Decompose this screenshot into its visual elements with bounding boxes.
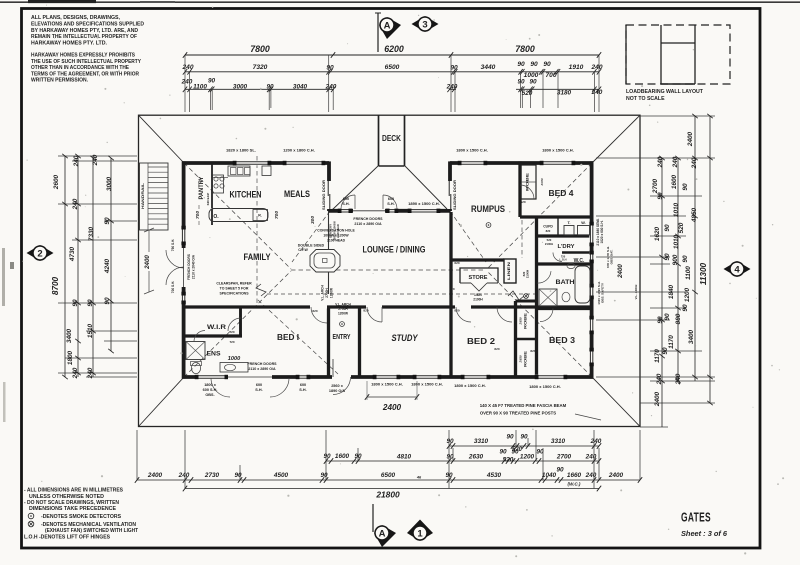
- svg-text:S.H.: S.H.: [387, 202, 394, 206]
- svg-text:90: 90: [682, 183, 689, 191]
- svg-text:90: 90: [664, 224, 671, 232]
- svg-text:620: 620: [454, 261, 459, 265]
- svg-text:REMAIN THE INTELLECTUAL PROPER: REMAIN THE INTELLECTUAL PROPERTY OF: [31, 34, 138, 40]
- svg-text:90: 90: [266, 83, 274, 90]
- svg-text:90: 90: [499, 449, 507, 456]
- svg-text:11300: 11300: [699, 262, 708, 285]
- svg-text:8700: 8700: [51, 276, 60, 295]
- svg-text:240: 240: [73, 155, 80, 167]
- svg-text:O.: O.: [213, 214, 219, 220]
- svg-text:240: 240: [325, 83, 337, 90]
- svg-text:LOADBEARING WALL LAYOUT: LOADBEARING WALL LAYOUT: [626, 89, 704, 95]
- svg-text:2630: 2630: [468, 454, 484, 461]
- svg-text:7800: 7800: [515, 44, 535, 54]
- svg-text:FRENCH DOORS: FRENCH DOORS: [187, 254, 191, 280]
- svg-text:1820 x 1800 SL.: 1820 x 1800 SL.: [226, 148, 256, 153]
- svg-text:240: 240: [92, 154, 99, 166]
- svg-text:240: 240: [585, 454, 597, 461]
- svg-text:W.I.R: W.I.R: [207, 324, 226, 331]
- svg-text:1800 x 1500 C.H.: 1800 x 1500 C.H.: [411, 382, 443, 387]
- svg-text:3000: 3000: [233, 83, 248, 90]
- svg-text:1600: 1600: [671, 174, 678, 189]
- svg-text:700: 700: [545, 72, 556, 79]
- svg-text:K20 E.F.P: K20 E.F.P: [206, 193, 210, 206]
- svg-text:720: 720: [229, 340, 234, 344]
- svg-text:2/630: 2/630: [519, 317, 523, 325]
- svg-text:1890 x 1500 C.H.: 1890 x 1500 C.H.: [408, 201, 440, 206]
- svg-text:TO SHEET 5 FOR: TO SHEET 5 FOR: [220, 287, 249, 291]
- svg-text:(W.C.): (W.C.): [568, 482, 581, 487]
- svg-text:2400: 2400: [147, 472, 163, 479]
- svg-text:3400: 3400: [66, 328, 73, 343]
- svg-text:C.F.W: C.F.W: [298, 248, 308, 252]
- svg-text:TERMS OF THE AGREEMENT, OR WIT: TERMS OF THE AGREEMENT, OR WITH PRIOR: [31, 71, 139, 77]
- svg-text:90: 90: [450, 65, 458, 72]
- svg-text:820: 820: [454, 309, 459, 313]
- svg-text:90: 90: [517, 79, 525, 86]
- svg-text:2110 x 2890 O/A: 2110 x 2890 O/A: [354, 222, 382, 226]
- svg-text:2400: 2400: [144, 255, 151, 270]
- svg-text:-DENOTES SMOKE DETECTORS: -DENOTES SMOKE DETECTORS: [41, 514, 121, 520]
- svg-text:240: 240: [585, 472, 597, 479]
- svg-text:240: 240: [675, 373, 682, 385]
- svg-text:BED I: BED I: [277, 332, 299, 342]
- svg-text:7320: 7320: [253, 64, 268, 71]
- svg-text:1800 x: 1800 x: [204, 383, 217, 387]
- svg-text:HARKAWAY HOMES EXPRESSLY PROHI: HARKAWAY HOMES EXPRESSLY PROHIBITS: [31, 53, 135, 59]
- svg-text:1800 x 1500 C.H.: 1800 x 1500 C.H.: [456, 148, 488, 153]
- svg-text:46: 46: [416, 476, 422, 480]
- svg-text:620: 620: [449, 287, 454, 291]
- svg-text:SLIDING DOOR: SLIDING DOOR: [453, 179, 457, 210]
- svg-text:720: 720: [229, 330, 234, 334]
- svg-text:90: 90: [320, 472, 328, 479]
- svg-text:2400: 2400: [654, 391, 661, 407]
- svg-text:90: 90: [657, 192, 664, 200]
- svg-text:240: 240: [591, 89, 603, 96]
- svg-text:2600: 2600: [53, 174, 60, 190]
- svg-text:2700H: 2700H: [325, 288, 329, 298]
- svg-text:2100H: 2100H: [545, 242, 553, 246]
- svg-text:2560 x: 2560 x: [331, 384, 344, 388]
- svg-text:L.O.H: L.O.H: [560, 258, 567, 262]
- svg-text:4810: 4810: [396, 454, 412, 461]
- svg-text:90: 90: [234, 472, 242, 479]
- svg-text:1800 x 1500 C.H.: 1800 x 1500 C.H.: [529, 384, 561, 389]
- svg-text:90: 90: [104, 297, 111, 305]
- svg-text:1020 x 600 S.H.: 1020 x 600 S.H.: [600, 220, 604, 243]
- svg-text:90: 90: [664, 313, 671, 321]
- svg-text:2110 x 2890 O/A: 2110 x 2890 O/A: [248, 367, 276, 371]
- svg-text:1040: 1040: [542, 472, 557, 479]
- svg-text:90: 90: [511, 449, 519, 456]
- svg-text:1800: 1800: [67, 350, 74, 365]
- svg-text:STUDY: STUDY: [392, 333, 419, 343]
- svg-text:1170: 1170: [654, 349, 661, 363]
- svg-text:90: 90: [87, 299, 94, 307]
- svg-text:UNLESS OTHERWISE NOTED: UNLESS OTHERWISE NOTED: [29, 494, 104, 500]
- svg-text:1200 x 1800 C.H.: 1200 x 1800 C.H.: [283, 148, 315, 153]
- svg-text:OTHER THAN IN ACCORDANCE WITH: OTHER THAN IN ACCORDANCE WITH THE: [31, 65, 129, 71]
- svg-text:240: 240: [72, 198, 79, 210]
- svg-text:L.O.H -DENOTES LIFT OFF HINGES: L.O.H -DENOTES LIFT OFF HINGES: [24, 535, 110, 541]
- svg-text:520: 520: [678, 222, 685, 233]
- svg-text:S.H.: S.H.: [255, 388, 262, 392]
- svg-text:1/820: 1/820: [474, 293, 482, 297]
- svg-text:1910: 1910: [569, 64, 584, 71]
- svg-text:SLIDING DOOR: SLIDING DOOR: [322, 179, 326, 210]
- svg-text:1660: 1660: [567, 472, 582, 479]
- svg-text:CUPD: CUPD: [543, 225, 553, 229]
- svg-text:2700H: 2700H: [338, 307, 348, 311]
- svg-text:700: 700: [274, 211, 280, 219]
- svg-text:90: 90: [657, 316, 664, 324]
- svg-text:3400: 3400: [688, 329, 695, 344]
- svg-text:90: 90: [208, 78, 216, 85]
- svg-text:1600: 1600: [335, 453, 350, 460]
- svg-text:2700: 2700: [556, 454, 572, 461]
- svg-text:3310: 3310: [551, 438, 566, 445]
- svg-text:OVER 90 X 90 TREATED PINE POST: OVER 90 X 90 TREATED PINE POSTS: [480, 411, 556, 416]
- svg-text:DIMENSIONS TAKE PRECEDENCE: DIMENSIONS TAKE PRECEDENCE: [29, 506, 116, 512]
- svg-text:4730: 4730: [69, 246, 76, 262]
- svg-text:S.H.: S.H.: [299, 388, 306, 392]
- svg-text:2/630: 2/630: [519, 355, 523, 363]
- svg-text:90: 90: [323, 453, 331, 460]
- svg-text:1000: 1000: [228, 356, 241, 362]
- svg-text:1200W: 1200W: [338, 312, 348, 316]
- svg-text:1200: 1200: [520, 454, 535, 461]
- svg-text:1: 1: [417, 528, 423, 539]
- svg-text:900: 900: [672, 254, 679, 265]
- svg-text:240: 240: [72, 367, 79, 379]
- svg-text:1840: 1840: [668, 284, 675, 299]
- svg-text:240: 240: [87, 367, 94, 379]
- svg-text:6500: 6500: [381, 472, 396, 479]
- svg-text:1200W: 1200W: [330, 288, 334, 298]
- svg-text:1010: 1010: [673, 234, 680, 249]
- svg-text:CLEARSPAN, REFER: CLEARSPAN, REFER: [216, 282, 252, 286]
- svg-text:PANTRY: PANTRY: [198, 176, 205, 200]
- svg-text:90: 90: [72, 299, 79, 307]
- svg-text:240: 240: [590, 438, 602, 445]
- svg-text:KITCHEN: KITCHEN: [230, 190, 262, 201]
- svg-text:(EXHAUST FAN) SWITCHED WITH LI: (EXHAUST FAN) SWITCHED WITH LIGHT: [45, 528, 138, 534]
- svg-text:NOT TO SCALE: NOT TO SCALE: [626, 96, 665, 102]
- svg-text:1200: 1200: [684, 287, 691, 302]
- svg-text:DOUBLE SIDED: DOUBLE SIDED: [298, 244, 325, 248]
- svg-text:6200: 6200: [384, 44, 404, 54]
- svg-text:BY HARKAWAY HOMES PTY, LTD. AR: BY HARKAWAY HOMES PTY, LTD. ARE, AND: [31, 28, 138, 34]
- svg-text:2400: 2400: [687, 131, 694, 147]
- svg-text:300: 300: [310, 216, 316, 224]
- svg-text:MEALS: MEALS: [284, 189, 310, 200]
- svg-text:21800: 21800: [375, 490, 400, 500]
- svg-text:2400: 2400: [608, 472, 624, 479]
- svg-text:THE USE OF SUCH INTELLECTUAL P: THE USE OF SUCH INTELLECTUAL PROPERTY: [31, 59, 141, 65]
- svg-text:OBS.: OBS.: [205, 393, 214, 397]
- svg-text:2730: 2730: [204, 472, 220, 479]
- svg-text:SERVERY: SERVERY: [329, 224, 333, 238]
- svg-text:4850: 4850: [691, 207, 698, 223]
- svg-text:880: 880: [675, 313, 682, 324]
- svg-text:1170: 1170: [668, 335, 675, 349]
- svg-text:W.C.: W.C.: [574, 258, 585, 264]
- svg-text:820: 820: [494, 347, 499, 351]
- svg-text:4500: 4500: [273, 472, 289, 479]
- svg-text:ENS: ENS: [207, 351, 222, 358]
- svg-text:3000: 3000: [106, 176, 113, 191]
- svg-text:700: 700: [195, 211, 201, 219]
- svg-text:600: 600: [388, 197, 394, 201]
- svg-text:3440: 3440: [481, 64, 496, 71]
- svg-text:600: 600: [256, 383, 262, 387]
- svg-text:1100: 1100: [685, 266, 692, 280]
- svg-text:820: 820: [546, 229, 551, 233]
- svg-text:7330: 7330: [88, 226, 95, 241]
- svg-text:1010: 1010: [673, 202, 680, 217]
- svg-text:600 S.H.: 600 S.H.: [203, 388, 218, 392]
- svg-text:BED 2: BED 2: [467, 336, 495, 346]
- svg-text:L'DRY: L'DRY: [558, 244, 575, 250]
- svg-text:1620: 1620: [654, 226, 661, 241]
- svg-text:90: 90: [506, 434, 514, 441]
- svg-text:- ALL DIMENSIONS ARE IN MILLIM: - ALL DIMENSIONS ARE IN MILLIMETRES: [24, 488, 123, 494]
- svg-text:90: 90: [556, 467, 564, 474]
- svg-text:820: 820: [530, 349, 535, 353]
- svg-text:90: 90: [682, 304, 689, 312]
- svg-text:140 X 45 F7 TREATED PINE FASCI: 140 X 45 F7 TREATED PINE FASCIA BEAM: [480, 403, 567, 408]
- svg-text:240: 240: [446, 83, 458, 90]
- svg-text:BATH: BATH: [556, 279, 575, 286]
- svg-text:HANDRAIL: HANDRAIL: [141, 183, 145, 209]
- svg-text:S.H.: S.H.: [342, 202, 349, 206]
- svg-text:ELEVATIONS AND SPECIFICATIONS: ELEVATIONS AND SPECIFICATIONS SUPPLIED: [31, 22, 144, 28]
- svg-text:3040: 3040: [293, 83, 308, 90]
- svg-text:90: 90: [530, 61, 538, 68]
- svg-text:620: 620: [520, 200, 525, 204]
- svg-text:LOUNGE / DINING: LOUNGE / DINING: [363, 245, 426, 255]
- svg-text:-DENOTES MECHANICAL VENTILATIO: -DENOTES MECHANICAL VENTILATION: [41, 522, 136, 528]
- svg-text:2400: 2400: [382, 403, 402, 412]
- svg-text:240: 240: [181, 64, 193, 71]
- svg-text:RUMPUS: RUMPUS: [471, 204, 505, 214]
- svg-text:90: 90: [517, 61, 525, 68]
- svg-text:V.L. ARCH: V.L. ARCH: [335, 303, 351, 307]
- svg-text:2110 x 2640 O/A: 2110 x 2640 O/A: [192, 254, 196, 279]
- svg-text:240: 240: [657, 156, 664, 168]
- svg-text:2100H: 2100H: [473, 298, 483, 302]
- svg-text:A: A: [384, 20, 391, 31]
- svg-text:90: 90: [104, 217, 111, 225]
- svg-text:LINEN: LINEN: [507, 262, 511, 280]
- svg-text:SPECIFICATIONS: SPECIFICATIONS: [219, 292, 249, 296]
- svg-text:BED 4: BED 4: [549, 188, 574, 198]
- svg-text:240: 240: [178, 472, 190, 479]
- svg-text:90: 90: [664, 253, 671, 261]
- svg-text:7800: 7800: [250, 44, 270, 54]
- svg-text:T.: T.: [568, 221, 571, 225]
- svg-text:1890 O/A: 1890 O/A: [329, 389, 346, 393]
- svg-text:240: 240: [691, 157, 698, 169]
- svg-text:6500: 6500: [385, 64, 400, 71]
- svg-text:240: 240: [181, 79, 193, 86]
- svg-text:2700: 2700: [652, 178, 659, 194]
- svg-text:600: 600: [343, 197, 349, 201]
- svg-text:90: 90: [446, 438, 454, 445]
- svg-text:4240: 4240: [104, 258, 111, 274]
- svg-text:2100 HEAD: 2100 HEAD: [336, 224, 340, 238]
- svg-text:3180: 3180: [557, 90, 572, 97]
- svg-text:600: 600: [300, 383, 306, 387]
- svg-text:FRENCH DOORS: FRENCH DOORS: [247, 362, 277, 366]
- svg-text:W.: W.: [581, 221, 585, 225]
- svg-text:DECK: DECK: [382, 133, 402, 143]
- svg-text:2100H: 2100H: [526, 270, 530, 278]
- svg-text:BED 3: BED 3: [549, 335, 575, 345]
- svg-text:2/720: 2/720: [540, 178, 544, 186]
- svg-text:1800 x 1500 C.H.: 1800 x 1500 C.H.: [454, 383, 486, 388]
- svg-text:ALL PLANS, DESIGNS, DRAWINGS,: ALL PLANS, DESIGNS, DRAWINGS,: [31, 15, 120, 21]
- svg-text:FAMILY: FAMILY: [244, 252, 271, 262]
- svg-text:GATES: GATES: [681, 510, 711, 525]
- svg-text:240: 240: [656, 373, 663, 385]
- svg-text:A: A: [379, 528, 386, 539]
- svg-text:WRITTEN PERMISSION.: WRITTEN PERMISSION.: [31, 78, 88, 84]
- svg-text:ENTRY: ENTRY: [333, 334, 351, 341]
- svg-text:90: 90: [529, 79, 537, 86]
- svg-text:3310: 3310: [474, 438, 489, 445]
- svg-text:700 S.H.: 700 S.H.: [171, 281, 175, 294]
- svg-text:4: 4: [734, 264, 740, 275]
- svg-text:- DO NOT SCALE DRAWINGS, WRITT: - DO NOT SCALE DRAWINGS, WRITTEN: [24, 500, 119, 506]
- svg-text:90: 90: [520, 434, 528, 441]
- svg-text:OBS. SAFETY: OBS. SAFETY: [601, 283, 605, 303]
- svg-text:FRENCH DOORS: FRENCH DOORS: [353, 217, 383, 221]
- svg-text:240: 240: [590, 64, 602, 71]
- svg-text:R.: R.: [258, 214, 262, 218]
- svg-text:STORE: STORE: [469, 275, 488, 281]
- svg-text:1000W x 1000W: 1000W x 1000W: [333, 221, 337, 241]
- svg-text:4530: 4530: [486, 472, 502, 479]
- svg-text:520: 520: [522, 90, 533, 97]
- svg-text:90: 90: [662, 347, 669, 355]
- svg-text:520: 520: [503, 457, 514, 464]
- svg-text:1800 x 1500 C.H.: 1800 x 1500 C.H.: [371, 382, 403, 387]
- svg-text:90: 90: [543, 61, 551, 68]
- svg-text:V.L. ARCH: V.L. ARCH: [321, 285, 325, 301]
- svg-text:HARKAWAY HOMES PTY. LTD.: HARKAWAY HOMES PTY. LTD.: [31, 40, 107, 46]
- svg-text:820: 820: [312, 309, 317, 313]
- svg-text:2: 2: [37, 248, 42, 259]
- svg-text:ROBE: ROBE: [524, 312, 528, 329]
- svg-text:1800 x 1500 C.H.: 1800 x 1500 C.H.: [542, 148, 574, 153]
- svg-text:ROBE: ROBE: [524, 350, 528, 367]
- svg-text:90: 90: [682, 255, 689, 263]
- svg-text:1100: 1100: [193, 83, 207, 90]
- svg-text:90: 90: [326, 65, 334, 72]
- svg-text:3: 3: [422, 19, 427, 30]
- svg-text:240: 240: [672, 156, 679, 168]
- svg-text:Sheet : 3 of 6: Sheet : 3 of 6: [681, 529, 728, 538]
- svg-text:820: 820: [363, 309, 368, 313]
- svg-text:1510: 1510: [87, 323, 94, 338]
- svg-text:790 S.H.: 790 S.H.: [171, 239, 175, 252]
- svg-text:2400: 2400: [617, 264, 624, 279]
